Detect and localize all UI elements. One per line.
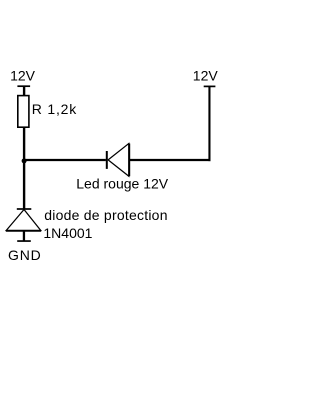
supply terminal bar left 12V (17, 85, 30, 87)
junction node dot (22, 158, 27, 163)
diode cathode bar (17, 208, 32, 210)
svg-text:12V: 12V (10, 68, 36, 84)
wire vertical from right 12V terminal down to LED wire (208, 87, 210, 161)
svg-text:Led rouge 12V: Led rouge 12V (76, 176, 169, 192)
supply terminal bar right 12V (204, 85, 216, 87)
diode triangle (points up) (6, 210, 40, 231)
wire stub from diode anode to ground terminal (23, 231, 25, 241)
wire horizontal from junction to LED cathode (23, 159, 106, 161)
LED triangle (108, 144, 129, 177)
svg-text:12V: 12V (193, 68, 219, 84)
resistor R1 body (18, 96, 29, 128)
wire from LED anode to right branch corner (130, 159, 211, 161)
svg-text:1N4001: 1N4001 (43, 225, 92, 241)
wire from resistor bottom down to diode cathode bar (23, 128, 25, 210)
svg-text:R 1,2k: R 1,2k (32, 101, 77, 117)
svg-text:diode de protection: diode de protection (44, 207, 167, 223)
ground terminal bar (17, 240, 31, 242)
LED cathode bar (106, 151, 108, 169)
svg-text:GND: GND (8, 247, 42, 263)
LED triangle base bar (128, 144, 130, 177)
diode anode base line (6, 230, 41, 232)
wire from left 12V terminal to resistor top (23, 87, 25, 97)
